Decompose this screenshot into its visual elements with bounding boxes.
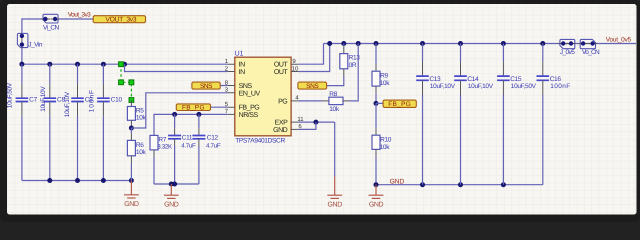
capacitor C14 xyxy=(460,44,462,62)
pin stubs left xyxy=(228,63,235,65)
svg-text:EXP: EXP xyxy=(275,120,288,127)
wire R8 to bus xyxy=(350,44,358,101)
svg-text:100nF: 100nF xyxy=(550,83,571,90)
svg-text:NR/SS: NR/SS xyxy=(239,111,259,119)
port FB_PG right xyxy=(376,102,383,104)
svg-text:SNS: SNS xyxy=(306,83,319,90)
resistor R6 xyxy=(130,128,132,133)
svg-text:0R: 0R xyxy=(349,62,357,69)
node top bus junctions xyxy=(327,41,332,46)
wire input vertical xyxy=(21,18,23,33)
connector J_0v5 xyxy=(560,39,575,48)
svg-text:VOUT_3v3: VOUT_3v3 xyxy=(105,17,136,24)
resistor R10 xyxy=(375,103,377,128)
resistor R8 xyxy=(329,97,343,104)
svg-text:C7: C7 xyxy=(29,96,37,103)
svg-text:10: 10 xyxy=(292,65,299,72)
wire OUT pin10 xyxy=(298,44,329,72)
wire EN_UV from divider xyxy=(131,93,227,128)
wire input top xyxy=(22,18,43,20)
capacitor C16 xyxy=(542,44,544,62)
node bottom bus junctions xyxy=(47,178,52,183)
node FB junction xyxy=(375,93,377,103)
svg-text:R10: R10 xyxy=(380,137,392,144)
connector Vo_CN xyxy=(580,39,595,48)
svg-text:10uF,10V: 10uF,10V xyxy=(40,86,47,112)
svg-text:GND: GND xyxy=(369,201,384,208)
svg-text:GND: GND xyxy=(273,127,288,134)
svg-text:IN: IN xyxy=(239,62,245,69)
node NR/SS taps xyxy=(172,112,177,117)
svg-text:PG: PG xyxy=(278,98,287,105)
node bottom right junctions xyxy=(374,182,379,187)
capacitor C8 xyxy=(49,64,51,83)
svg-text:10uF,50V: 10uF,50V xyxy=(511,83,537,90)
svg-text:R7: R7 xyxy=(158,136,166,143)
wire IN pin2 branch xyxy=(125,64,228,71)
wire EXP xyxy=(298,121,334,123)
svg-text:C10: C10 xyxy=(111,96,123,103)
svg-text:IN: IN xyxy=(239,69,245,76)
ground GND1 xyxy=(124,181,139,199)
svg-text:4.7uF: 4.7uF xyxy=(181,142,196,149)
port VOUT_3v3 xyxy=(93,16,145,23)
port SNS right xyxy=(298,82,327,89)
svg-text:SNS: SNS xyxy=(200,83,213,90)
ground GND4 xyxy=(369,185,384,199)
svg-text:10uF,10V: 10uF,10V xyxy=(64,91,71,117)
resistor R13 xyxy=(343,44,345,47)
connector Vi_CN xyxy=(43,14,58,23)
svg-text:10uF,10V: 10uF,10V xyxy=(430,83,456,90)
port SNS left xyxy=(192,82,220,89)
resistor R9 xyxy=(375,44,377,65)
svg-text:10k: 10k xyxy=(136,114,147,121)
svg-text:3.32K: 3.32K xyxy=(157,144,173,151)
wire OUT pin9 xyxy=(298,44,323,65)
resistor R7 xyxy=(150,135,158,150)
port FB_PG left xyxy=(176,104,210,111)
node R5-R6 junction xyxy=(129,126,134,131)
resistor R5 xyxy=(130,100,132,107)
wire PG xyxy=(298,100,322,102)
node bottom taps xyxy=(169,182,174,187)
svg-text:10k: 10k xyxy=(329,106,340,113)
svg-text:10uF,50V: 10uF,50V xyxy=(6,82,13,108)
svg-text:EN_UV: EN_UV xyxy=(239,90,261,97)
wire output top bus xyxy=(324,43,637,45)
wire input bus xyxy=(22,63,228,65)
svg-text:10uF,10V: 10uF,10V xyxy=(468,83,494,90)
wire NR/SS net xyxy=(154,114,228,135)
svg-text:10k: 10k xyxy=(136,149,147,156)
svg-text:J_Vin: J_Vin xyxy=(28,41,43,48)
svg-text:Vout_0v5: Vout_0v5 xyxy=(606,36,632,43)
capacitor C9 xyxy=(77,64,79,83)
svg-text:Vout_3v3: Vout_3v3 xyxy=(68,12,91,19)
op-amp U1 TPS7A9401DSCR body xyxy=(235,57,291,136)
wire NR/SS bottom xyxy=(154,183,199,185)
svg-text:10k: 10k xyxy=(380,80,391,87)
svg-text:TPS7A9401DSCR: TPS7A9401DSCR xyxy=(235,138,285,145)
wire SNS right xyxy=(327,76,344,86)
capacitor C12 xyxy=(198,114,200,128)
ground GND3 xyxy=(327,177,342,199)
svg-text:Vo_CN: Vo_CN xyxy=(582,49,600,56)
svg-text:SNS: SNS xyxy=(239,83,253,90)
wire GND pin6 xyxy=(298,122,316,129)
svg-text:FB_PG: FB_PG xyxy=(388,101,411,108)
wire bottom bus left xyxy=(22,180,131,182)
svg-text:GND: GND xyxy=(390,179,405,186)
svg-text:R9: R9 xyxy=(380,73,388,80)
svg-text:GND: GND xyxy=(164,201,179,208)
svg-text:Vi_CN: Vi_CN xyxy=(43,25,60,32)
capacitor C15 xyxy=(502,44,504,62)
pin stubs right xyxy=(291,63,298,65)
capacitor C11 xyxy=(174,114,176,128)
wire SNS stub xyxy=(220,85,227,87)
wire bottom bus right xyxy=(376,184,543,186)
capacitor C7 xyxy=(21,64,23,83)
svg-text:C12: C12 xyxy=(207,134,219,141)
svg-text:OUT: OUT xyxy=(274,69,289,76)
capacitor C10 xyxy=(102,64,104,83)
svg-text:100nF: 100nF xyxy=(89,89,96,112)
capacitor C13 xyxy=(422,44,424,62)
node EXP junction xyxy=(313,120,318,125)
wire FB_PG stub xyxy=(211,106,228,108)
svg-text:C11: C11 xyxy=(182,134,193,141)
connector J_Vin xyxy=(17,33,28,47)
ground GND2 xyxy=(164,184,179,198)
wire EXP down xyxy=(334,122,336,176)
svg-text:R8: R8 xyxy=(329,91,337,98)
wire selected to R5 (green handles) xyxy=(121,64,131,100)
svg-text:FB_PG: FB_PG xyxy=(239,105,260,112)
svg-text:10k: 10k xyxy=(380,144,391,151)
svg-text:FB_PG: FB_PG xyxy=(182,105,205,112)
svg-text:OUT: OUT xyxy=(274,62,289,69)
svg-text:4.7uF: 4.7uF xyxy=(206,142,221,149)
svg-text:U1: U1 xyxy=(235,51,244,58)
svg-text:J_0v5: J_0v5 xyxy=(560,49,576,56)
node bus junctions xyxy=(19,62,24,67)
svg-text:GND: GND xyxy=(124,201,139,208)
svg-text:GND: GND xyxy=(328,201,343,208)
